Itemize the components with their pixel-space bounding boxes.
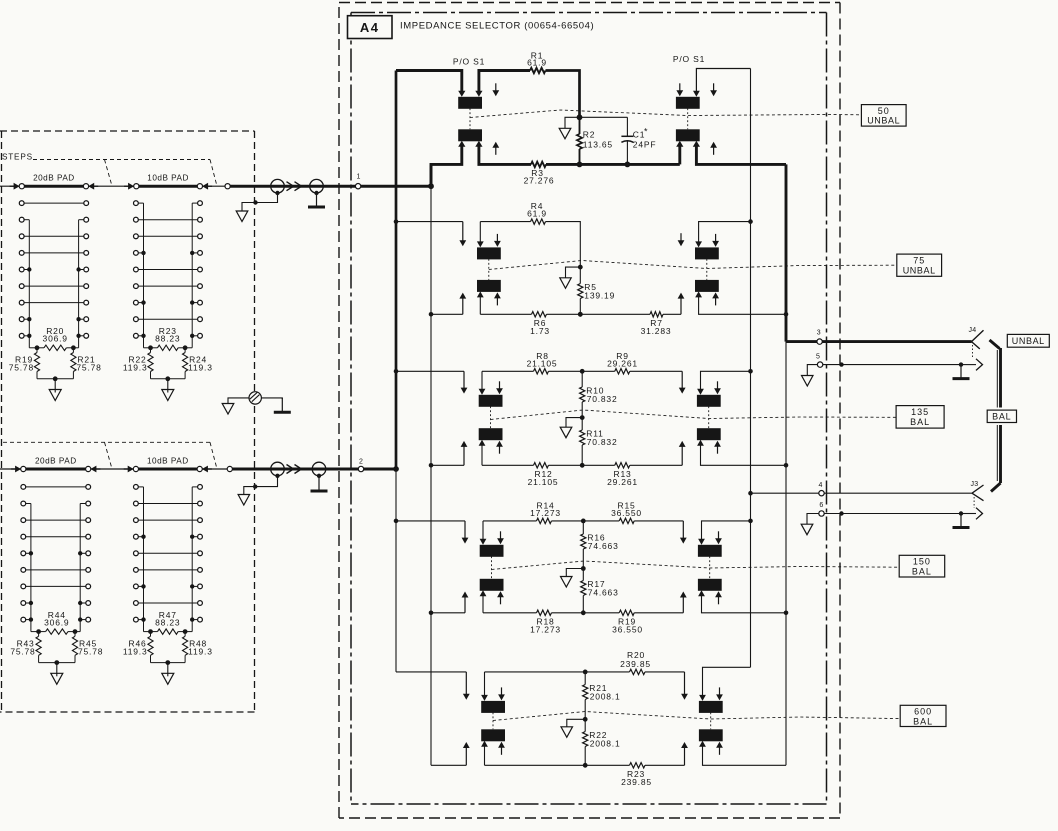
contact arrow (150 bottom A) [462,592,469,613]
resistor R7 [650,312,663,317]
contact arrow (135 bottom right A) [679,441,686,465]
contact arrow (75 top A) [459,222,466,247]
label R19a [612,616,643,634]
resistor R4 [531,219,546,224]
resistor R13 [615,463,630,468]
wire bar down (135 bottom B) [479,440,486,466]
svg-text:UNBAL: UNBAL [1012,336,1045,346]
svg-text:6: 6 [819,502,823,509]
contact arrow (free 600 top C) [498,687,505,700]
svg-text:BAL: BAL [912,566,932,576]
wire pin4 to J3 [824,492,972,494]
label 20dB PAD [35,456,77,465]
label R15 [611,500,642,518]
shield circle on boundary [249,392,261,404]
svg-text:2: 2 [359,458,363,465]
contact arrow (free 75 top right C) [712,234,719,247]
switch contact circle [225,184,230,189]
contact arrow (75 top right A) [678,233,685,246]
switch linkage dotted (600) [493,712,711,729]
resistor R21a [583,672,588,722]
linkage dashed to 600 BAL [493,712,900,721]
label box 600 BAL [900,705,946,726]
ground (earth arrow, pin 5) [802,376,814,387]
svg-text:36.550: 36.550 [612,624,643,634]
output bracket BAL [990,340,1001,492]
wire bar down (75 bottom B) [477,291,484,314]
svg-text:20dB PAD: 20dB PAD [35,456,77,465]
resistor R8 [534,369,549,374]
mechanical linkage dashed line (STEPS) [33,160,217,185]
svg-text:75: 75 [913,256,925,266]
contact arrow (free 600 top right C) [716,687,723,700]
label R7 [641,318,672,336]
wire R12-R13 [549,464,615,466]
switch S1 wafer bars (600 right) [699,701,723,741]
resistor R20a [585,669,645,674]
svg-text:UNBAL: UNBAL [867,115,900,125]
wire pin 3 output (thick) [786,340,817,343]
svg-text:A4: A4 [360,20,380,35]
svg-text:150: 150 [913,557,931,567]
wire R14-R15 [552,519,620,524]
wire R3 to junctions [546,162,680,168]
label R3 [524,168,555,186]
svg-text:*: * [644,127,648,137]
label R19 [9,355,34,373]
svg-text:36.550: 36.550 [611,508,642,518]
contact arrow (free, 50 bottom) [492,142,499,155]
label R47 [155,610,180,628]
wire R1 to R2 [546,71,580,118]
svg-text:2008.1: 2008.1 [590,739,621,749]
svg-text:1: 1 [356,174,360,181]
label IMPEDANCE SELECTOR (00654-66504) [400,21,594,32]
contact arrow (135 top A) [461,371,468,393]
switch contact circle [134,184,139,189]
resistor R15 [619,518,634,523]
wire pin1 to node [361,183,434,189]
label 20dB PAD [33,174,75,183]
label R46 [123,638,148,656]
svg-text:70.832: 70.832 [587,394,618,404]
label R12 [528,469,559,487]
svg-text:5: 5 [816,353,820,360]
wire boundary shield left [228,398,249,404]
svg-text:75.78: 75.78 [9,363,34,373]
switch contact circle [19,184,24,189]
wire R6 row [480,313,531,315]
pin 4 circle [819,482,825,496]
wire R14 row [483,520,537,522]
resistor R2 [577,114,583,164]
plug chevron pin 5 [976,359,983,371]
linkage dashed to 75 UNBAL [489,261,897,270]
contact arrow (free 150 top C) [497,531,504,544]
label box BAL [987,410,1016,422]
plug chevron pin 6 [976,508,983,520]
svg-text:306.9: 306.9 [43,334,68,344]
attenuator ladder with resistors R20 R19 R21 [19,201,88,401]
contact arrow (free 600 bottom right C) [716,742,723,755]
label P/O S1 (right wafer) [673,54,705,64]
label R8 [527,351,558,369]
svg-text:70.832: 70.832 [587,437,618,447]
wire S1-50 bottom mid (to R3) [475,141,531,165]
label box 135 BAL [896,406,944,429]
wire input 2 thick segment [232,468,358,471]
wire R19 to contact [634,612,683,614]
label box 150 BAL [899,555,945,577]
svg-text:239.85: 239.85 [620,659,651,669]
svg-text:4: 4 [819,482,823,489]
switch S1 wafer bars (135 right) [697,395,721,440]
switch S1 wafer bars (150 right) [698,545,722,591]
connector J3 [971,481,984,501]
resistor R17 [581,569,586,616]
switch contact circle [21,466,26,471]
wire L1 to contact (600 top) [396,671,466,673]
svg-text:2008.1: 2008.1 [590,692,621,702]
resistor R18 [537,610,552,615]
mechanical linkage dashed line (STEPS) [3,442,217,467]
wire R8-R9 [549,369,615,374]
linkage dashed to 50 UNBAL [470,110,861,118]
wire V1 to bar (150 top right) [698,519,753,545]
switch contact circle [83,184,88,189]
contact arrow (600 bottom right A) [681,742,688,765]
pin 6 circle [819,502,824,516]
resistor R11 [580,418,585,468]
wire V1 to bar (75 top right) [695,219,753,247]
label STEPS [2,153,33,162]
wire bar down (600 bottom B) [481,741,488,766]
ground (earth arrow, input 1 shield) [236,211,248,222]
svg-text:20dB PAD: 20dB PAD [33,174,75,183]
contact arrow (600 top A) [463,672,470,700]
label R45 [78,638,103,656]
label R21a [589,683,620,702]
contact arrow (free 75 top C) [494,234,501,247]
contact arrow (135 top right A) [679,371,686,393]
contact arrow (free 600 bottom C) [498,742,505,755]
svg-text:31.283: 31.283 [641,326,672,336]
svg-text:P/O S1: P/O S1 [453,57,485,67]
label R21 [76,355,101,373]
svg-text:BAL: BAL [910,417,930,427]
shield circle (input 1) [271,179,285,195]
switch S1 wafer bars (600 left) [481,701,505,741]
switch S1 wafer bars (135 left) [479,395,503,440]
label R20 [43,326,68,344]
wire bar to resistor row (75 top B) [477,222,484,248]
svg-text:75.78: 75.78 [78,646,103,656]
svg-text:STEPS: STEPS [2,153,33,162]
contact arrow (free, 50 top right C) [710,83,717,96]
wire R20a row [485,670,588,675]
switch S1 wafer bars (50 right) [676,97,700,142]
wire bar to V2 (150 bottom right) [698,590,788,615]
wire R7 to contact [663,313,681,315]
ground (earth arrow, 600 section) [561,719,585,737]
cable chevrons input 2 [287,465,302,474]
svg-text:88.23: 88.23 [155,618,180,628]
wire collector V2 (thick to pin 3) [785,164,788,765]
resistor R6 [532,312,547,317]
wire bar to V2 (135 bottom right) [697,440,788,468]
connector J4 [969,327,984,349]
A4 title box [348,16,393,39]
svg-text:139.19: 139.19 [584,291,615,301]
label R22 [123,355,148,373]
svg-text:75.78: 75.78 [10,646,35,656]
contact arrow (free 150 top right C) [715,531,722,544]
label R23 [155,326,180,344]
label 10dB PAD [147,174,189,183]
wire R2 top to C1 top [580,116,628,118]
wire R8 row [482,370,534,372]
wire S1-50 bottom right B (to V2) [693,141,786,165]
resistor R19a [619,610,634,615]
svg-text:27.276: 27.276 [524,176,555,186]
switch linkage dotted (150) [492,556,710,579]
label R20a [620,650,651,669]
svg-text:119.3: 119.3 [123,646,148,656]
svg-text:50: 50 [878,106,890,116]
label R48 [188,638,213,656]
label R4 [527,201,547,219]
label R24 [188,355,213,373]
label R16 [587,533,618,552]
svg-text:21.105: 21.105 [527,359,558,369]
contact arrow (75 bottom A) [459,293,466,315]
svg-text:J3: J3 [971,481,979,488]
label box UNBAL [1007,334,1049,347]
svg-text:R2: R2 [583,130,595,140]
contact arrow (free, 50 top right A) [676,83,683,96]
wire R4 to R5 [546,222,583,270]
resistor R12 [534,463,549,468]
wire R18 row [483,612,537,614]
wire S1-50 bottom left [431,141,465,186]
contact arrow (free, 50 bottom right C) [710,142,717,155]
contact arrow (free 150 bottom right C) [715,591,722,604]
wire S1-50 bottom right A (from R3) [676,141,683,165]
label R10 [586,386,617,405]
label R23a [621,769,652,787]
wire pin 5 [823,362,976,366]
wire boundary shield right [261,398,282,399]
resistor R5 [578,267,583,317]
attenuator ladder with resistors R47 R46 R48 [134,485,203,685]
resistor R10 [580,371,585,420]
wire L2 to contact (135 bottom) [429,463,464,468]
svg-text:119.3: 119.3 [188,646,213,656]
label box 75 UNBAL [897,254,942,276]
label R5 [584,282,615,300]
wire R15 to contact [634,520,683,522]
contact arrow (free 135 bottom C) [496,441,503,454]
resistor R23a [630,763,646,768]
shield circle 2 (input 2) [312,462,326,478]
label R44 [44,610,69,628]
pin 5 circle [816,353,823,367]
wire pin 6 [824,511,976,515]
wire R13 to contact [630,464,682,466]
wire input 1 thick segment [230,185,355,188]
wire bar to V2 (75 bottom right) [695,291,788,316]
assembly A4 inner chain border [351,13,827,805]
svg-text:10dB PAD: 10dB PAD [147,174,189,183]
label R17 [587,579,618,598]
assembly boundary (left attenuator, dashed box) [0,131,255,712]
contact arrow (135 bottom A) [461,441,468,465]
resistor R14 [537,518,552,523]
svg-text:3: 3 [817,330,821,337]
label R6 [530,318,550,336]
svg-text:J4: J4 [969,327,977,334]
contact arrow (free, 50 top) [492,83,499,96]
label R14 [530,500,561,518]
wire V1 to bar (135 top right) [697,369,753,395]
resistor R22a [583,719,588,767]
switch linkage dotted (135) [491,406,709,428]
chassis ground (input 2) [311,476,328,491]
wire R12 row [482,464,534,466]
label R13 [607,469,638,487]
switch linkage dotted (75) [489,259,707,280]
wire input line with 20dB PAD / 10dB PAD segments [0,183,225,190]
svg-text:IMPEDANCE SELECTOR (00654-6650: IMPEDANCE SELECTOR (00654-66504) [400,21,594,32]
svg-text:BAL: BAL [913,716,933,726]
wire pin 4 [748,491,819,496]
wire node bus L1 [395,71,398,672]
shield circle (input 2) [271,462,285,478]
svg-text:119.3: 119.3 [188,363,213,373]
label R22a [589,730,620,749]
wire R18-R19 [552,612,620,614]
resistor R3 [531,162,546,167]
label R18 [530,616,561,634]
svg-text:29.261: 29.261 [607,359,638,369]
svg-text:21.105: 21.105 [528,477,559,487]
dotted link J3 to plug [973,497,975,508]
label box 50 UNBAL [861,105,906,127]
svg-text:P/O S1: P/O S1 [673,54,705,64]
contact arrow (free 75 bottom C) [494,292,501,305]
label R1 [527,50,547,67]
wire pin6 ground stub [807,514,819,525]
capacitor C1 [621,117,633,164]
wire L2 to contact (75 bottom) [429,312,463,317]
wire L2 to contact (150 bottom) [429,611,465,616]
wire bar to resistor row (150 top B) [480,521,487,545]
wire bar to resistor row (135 top B) [479,371,486,395]
svg-text:24PF: 24PF [633,140,657,150]
svg-text:61.9: 61.9 [527,209,547,219]
wire L1 to contact (150 top) [394,519,465,524]
chassis ground (input 1) [308,193,325,207]
svg-text:1.73: 1.73 [530,326,550,336]
contact arrow (free 135 top C) [496,381,503,394]
attenuator ladder with resistors R23 R22 R24 [134,201,203,401]
assembly A4 outer dashed border [339,3,840,819]
wire S1-50 top right (to V1) [693,69,751,97]
svg-text:29.261: 29.261 [607,477,638,487]
contact arrow (free 150 bottom C) [497,591,504,604]
svg-text:75.78: 75.78 [76,363,101,373]
contact arrow (150 top A) [462,521,469,544]
svg-text:10dB PAD: 10dB PAD [147,456,189,465]
cable chevrons input 1 [287,182,302,191]
contact arrow (150 bottom right A) [680,592,687,613]
svg-text:306.9: 306.9 [44,618,69,628]
contact arrow (free 75 bottom right C) [712,292,719,305]
switch contact circle [133,466,138,471]
wire node bus L2 [430,164,433,765]
wire pin2 to node [364,466,399,472]
switch S1 wafer bars (150 left) [480,545,504,591]
linkage dashed to 135 BAL [491,410,897,420]
svg-text:113.65: 113.65 [583,140,613,150]
contact arrow (free 135 bottom right C) [714,441,721,454]
ground (earth arrow, input 2 shield) [238,495,250,506]
switch contact circle [197,184,202,189]
svg-text:88.23: 88.23 [155,334,180,344]
wire S1-50 top mid (to R1) [475,71,530,97]
ground (earth arrow, 150 section) [561,569,584,588]
svg-text:600: 600 [914,707,932,717]
ground (earth arrow, 135 section) [560,418,582,438]
label R43 [10,638,35,656]
svg-text:BAL: BAL [992,412,1011,422]
svg-text:61.9: 61.9 [527,58,547,68]
chassis ground (pin 5) [953,365,970,379]
pin 3 circle [817,330,823,345]
label P/O S1 (left wafer) [453,57,485,67]
wire V1 to bar (600 top right) [699,667,750,701]
ground (earth arrow, boundary) [222,404,234,415]
contact arrow (600 bottom A) [463,742,470,765]
chassis ground (boundary) [274,398,291,412]
switch contact circle [197,466,202,471]
wire pin3 to J4 [822,340,971,343]
dotted link J4 to plug [972,345,974,358]
wire bar down (150 bottom B) [480,590,487,613]
wire R20 to contact [645,671,685,673]
label C1 [633,127,657,150]
switch linkage dotted (50) [470,108,688,129]
label 10dB PAD [147,456,189,465]
wire R23 to contact [645,764,685,766]
svg-text:135: 135 [911,407,929,417]
svg-text:74.663: 74.663 [588,541,619,551]
resistor R16 [581,521,586,571]
svg-text:17.273: 17.273 [530,508,561,518]
wire R6 to R7 [547,312,651,317]
wire bar to V2 (600 bottom right) [699,741,786,766]
switch contact circle [227,466,232,471]
contact arrow (150 top right A) [680,521,687,544]
ground (earth arrow, pin 6) [801,524,813,535]
switch contact circle [86,466,91,471]
linkage dashed to 150 BAL [492,561,900,570]
wire L1 to contact (75 top) [394,219,463,224]
wire collector V1 [750,69,752,668]
wire R4 row [480,221,530,223]
switch S1 wafer bars (75 left) [477,247,501,292]
ground (earth arrow, 50 section) [559,117,579,139]
